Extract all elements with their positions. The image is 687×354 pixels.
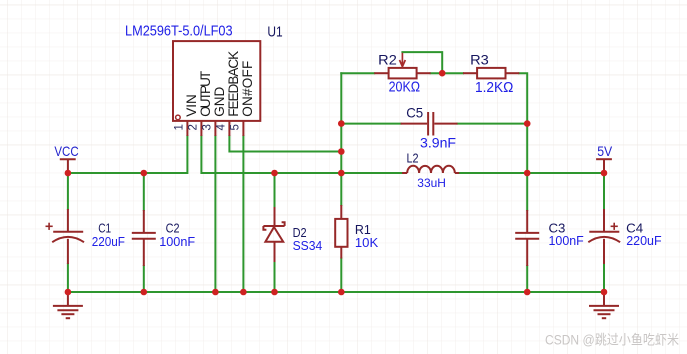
- wire C5 right: [458, 123, 528, 125]
- ground symbol left: [53, 292, 83, 318]
- wire FEEDBACK pin4: [229, 136, 341, 152]
- VCC power flag: [60, 159, 76, 173]
- pin stub 5: [242, 121, 244, 136]
- resistor R3: [463, 72, 477, 74]
- svg-text:3.9nF: 3.9nF: [420, 135, 456, 151]
- wire C4 top: [603, 173, 605, 209]
- pin stub 4: [228, 121, 230, 136]
- svg-text:100nF: 100nF: [549, 233, 584, 248]
- node C5 right: [524, 120, 531, 127]
- svg-text:3: 3: [202, 124, 214, 130]
- wire GND pin3 to ground rail: [214, 136, 216, 292]
- svg-text:220uF: 220uF: [626, 233, 661, 248]
- diode D2 (SS34 schottky): [263, 207, 284, 262]
- node VCC rail / C2: [141, 170, 148, 177]
- node C5 left: [338, 120, 345, 127]
- node output / C3: [524, 170, 531, 177]
- svg-text:2: 2: [188, 124, 200, 130]
- svg-text:5V: 5V: [597, 143, 613, 159]
- svg-text:VIN: VIN: [184, 94, 199, 117]
- node output / 5V C4: [601, 170, 608, 177]
- svg-text:5: 5: [230, 124, 242, 130]
- svg-text:SS34: SS34: [293, 238, 323, 253]
- wire C2 bottom: [143, 266, 145, 292]
- capacitor C5 (3.9nF): [401, 112, 458, 136]
- svg-text:R2: R2: [378, 51, 397, 67]
- svg-text:100nF: 100nF: [159, 234, 195, 249]
- svg-text:10K: 10K: [355, 235, 379, 250]
- wire C2 top: [143, 173, 145, 210]
- node gnd pin5: [240, 289, 247, 296]
- wire R1 bottom: [340, 259, 342, 293]
- IC U1 body: [173, 41, 260, 121]
- node R2 wiper junction: [439, 70, 446, 77]
- potentiometer R2: [374, 72, 388, 74]
- svg-text:1.2KΩ: 1.2KΩ: [475, 80, 514, 96]
- node switch / R1 branch: [338, 170, 345, 177]
- wire ON#OFF pin5 to ground rail: [242, 136, 244, 292]
- node gnd C1: [65, 289, 72, 296]
- node VCC rail / C1: [65, 170, 72, 177]
- wire R2 to R3: [431, 72, 463, 74]
- capacitor C2 (100nF): [132, 210, 156, 266]
- svg-text:33uH: 33uH: [417, 176, 446, 190]
- node gnd C3: [524, 289, 531, 296]
- svg-text:GND: GND: [212, 87, 227, 117]
- svg-text:20KΩ: 20KΩ: [389, 79, 421, 95]
- wire feedback vertical to R1: [340, 73, 342, 205]
- R2 wiper arrow: [400, 53, 406, 67]
- node gnd D2: [271, 289, 278, 296]
- pin stub 2: [200, 121, 202, 136]
- node gnd C2: [141, 289, 148, 296]
- node gnd R1: [338, 289, 345, 296]
- wire C5 left: [341, 123, 400, 125]
- wire switch node from OUTPUT pin2 to L2: [201, 136, 402, 173]
- wire L2 to 5V output: [459, 172, 604, 174]
- wire VCC rail to VIN: [68, 136, 187, 173]
- wire C3 bottom: [526, 266, 528, 292]
- wire R2 left branch: [341, 72, 374, 74]
- svg-text:FEEDBACK: FEEDBACK: [226, 51, 241, 117]
- inductor L2: [402, 166, 459, 173]
- wire C1 bottom: [67, 264, 69, 292]
- pin stub 1: [186, 121, 188, 136]
- svg-text:C5: C5: [406, 105, 423, 121]
- svg-text:U1: U1: [267, 23, 282, 40]
- resistor R1: [340, 205, 342, 219]
- svg-text:1: 1: [174, 124, 186, 130]
- node switch / D2: [271, 170, 278, 177]
- capacitor C4 (polarized 220uF): [588, 209, 620, 264]
- svg-text:LM2596T-5.0/LF03: LM2596T-5.0/LF03: [125, 22, 233, 39]
- wire ground rail: [68, 291, 604, 293]
- wire R2 wiper: [402, 52, 442, 73]
- 5V power flag: [596, 159, 612, 173]
- node feedback / R1: [338, 148, 345, 155]
- svg-text:CSDN @跳过小鱼吃虾米: CSDN @跳过小鱼吃虾米: [545, 332, 679, 348]
- capacitor C3 (100nF): [515, 210, 539, 266]
- svg-text:4: 4: [216, 124, 228, 131]
- svg-text:VCC: VCC: [54, 143, 78, 159]
- svg-text:OUTPUT: OUTPUT: [198, 71, 213, 117]
- wire R3 right down to output: [519, 73, 527, 210]
- pin 1 indicator: [176, 115, 181, 120]
- svg-text:ON#OFF: ON#OFF: [240, 61, 255, 117]
- wire D2 bottom: [274, 262, 276, 292]
- svg-text:L2: L2: [407, 151, 419, 166]
- node gnd C4: [601, 289, 608, 296]
- node gnd pin3: [212, 289, 219, 296]
- wire C4 bottom: [603, 264, 605, 292]
- svg-text:R3: R3: [470, 51, 489, 67]
- wire D2 top: [274, 173, 276, 207]
- wire C1 top: [67, 173, 69, 209]
- ground symbol right: [589, 292, 619, 318]
- pin stub 3: [214, 121, 216, 136]
- capacitor C1 (polarized 220uF): [46, 209, 85, 264]
- svg-text:220uF: 220uF: [92, 234, 125, 249]
